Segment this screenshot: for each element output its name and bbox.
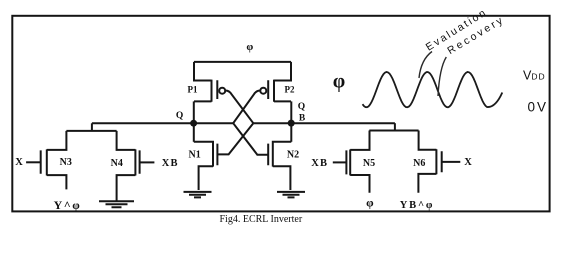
svg-text:N1: N1 (188, 149, 200, 160)
waveform phi clock (363, 72, 503, 107)
wire node Q vertical trunk (193, 101, 195, 141)
wire N5/N6 drain rail (369, 130, 418, 132)
wire XB lead to N4 gate (140, 161, 155, 163)
svg-text:Y^φ: Y^φ (54, 198, 82, 212)
svg-text:φ: φ (366, 196, 374, 210)
transistor P2 (260, 62, 291, 102)
leader line Evaluation (419, 52, 432, 79)
wire phi supply rail (194, 61, 291, 63)
svg-text:N4: N4 (111, 158, 123, 169)
wire N3/N4 drain rail (66, 130, 116, 132)
wire X lead to N6 gate (442, 161, 461, 163)
wire XB input lead right (333, 161, 347, 163)
svg-text:P2: P2 (285, 84, 295, 94)
svg-text:N3: N3 (60, 157, 72, 168)
wire QB horizontal net (253, 122, 395, 124)
wire node QB vertical trunk (290, 101, 292, 141)
svg-text:XB: XB (311, 158, 328, 169)
node QB junction dot (288, 120, 295, 127)
svg-text:Q: Q (298, 102, 305, 112)
wire cross-couple P1 gate to QB (225, 90, 254, 123)
wire QB-net stub to N5/N6 rail (394, 123, 396, 130)
svg-text:N2: N2 (287, 149, 299, 160)
wire Q-net stub to N3/N4 rail (91, 123, 93, 131)
svg-text:N5: N5 (363, 158, 375, 169)
ground under N2 (277, 192, 305, 198)
figure border frame (decorative) (12, 16, 549, 212)
svg-text:Q: Q (176, 111, 183, 121)
wire Q horizontal net (92, 122, 233, 124)
svg-text:B: B (299, 114, 306, 124)
svg-text:P1: P1 (188, 84, 198, 94)
transistor N4 (117, 131, 140, 201)
svg-text:X: X (15, 157, 23, 168)
svg-text:YB^φ: YB^φ (400, 200, 434, 211)
wire cross-couple N2 gate to Q (233, 123, 268, 155)
transistor N3 (41, 131, 67, 190)
node Q junction dot (190, 120, 197, 127)
svg-text:X: X (464, 157, 472, 168)
svg-text:φ: φ (333, 71, 345, 93)
transistor N6 (418, 131, 441, 193)
svg-text:φ: φ (246, 41, 253, 53)
svg-text:0V: 0V (528, 99, 549, 114)
svg-text:VDD: VDD (523, 69, 546, 83)
svg-text:XB: XB (162, 158, 179, 169)
ground under N1 (184, 192, 212, 198)
wire cross-couple N1 gate to QB (217, 123, 253, 154)
transistor N5 (346, 131, 369, 193)
svg-text:Fig4. ECRL Inverter: Fig4. ECRL Inverter (220, 214, 303, 225)
wire cross-couple P2 gate to Q (233, 90, 261, 123)
wire X input lead left (26, 161, 41, 163)
transistor N2 (268, 141, 291, 190)
leader line Recovery (438, 57, 446, 96)
transistor N1 (194, 141, 218, 190)
svg-text:N6: N6 (413, 158, 425, 169)
ground under N4 (99, 201, 134, 207)
transistor P1 (194, 62, 225, 102)
